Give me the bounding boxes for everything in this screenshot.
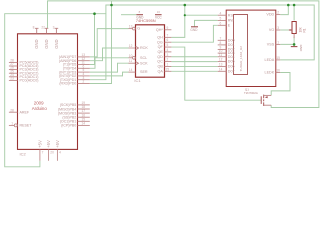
svg-text:4: 4 bbox=[220, 11, 222, 15]
svg-text:RESET: RESET bbox=[20, 124, 33, 128]
junction dot VSS/pot bottom GND bbox=[293, 43, 296, 46]
wire IC1 QA to LCD D7 bbox=[171, 70, 217, 72]
LCD left pins RS R/W E bbox=[218, 15, 227, 25]
junction dot on +5V rail at VDD branch bbox=[287, 4, 290, 7]
IC2 pin number labels bbox=[10, 25, 85, 154]
svg-text:4: 4 bbox=[59, 151, 61, 155]
potentiometer R1 body bbox=[292, 22, 296, 34]
svg-text:23: 23 bbox=[10, 77, 14, 81]
svg-text:LEDK: LEDK bbox=[265, 71, 275, 75]
wire Arduino PD3 to IC1 SCK bbox=[90, 63, 129, 72]
wire stub to GND bar above IC1 bbox=[121, 14, 136, 16]
IC1 output pins QH* QH QG QF QE QD QC QB QA bbox=[165, 30, 172, 72]
svg-text:QC: QC bbox=[157, 60, 163, 64]
IC2 left side pins PC5..PC0 bbox=[9, 62, 18, 80]
svg-text:TUXGR_16X2_R2: TUXGR_16X2_R2 bbox=[239, 46, 243, 72]
wire +5V net: Arduino bottom pin loop left side, top rail to LCD VDD, pot, LEDA bbox=[5, 5, 315, 167]
IC1 pin RCK (12) with clock wedge bbox=[129, 46, 139, 49]
svg-text:GND: GND bbox=[34, 39, 39, 48]
IC1 pin SER (14) bbox=[129, 71, 136, 73]
svg-text:D07: D07 bbox=[228, 69, 235, 73]
svg-text:+5V: +5V bbox=[55, 140, 60, 148]
LCD right pins VDD VO VSS LEDA LEDK bbox=[276, 15, 281, 73]
svg-text:7: 7 bbox=[220, 36, 222, 40]
svg-text:LEDA: LEDA bbox=[265, 58, 275, 62]
svg-text:(RXD)PD0: (RXD)PD0 bbox=[59, 82, 76, 86]
svg-text:5: 5 bbox=[220, 17, 222, 21]
svg-text:12: 12 bbox=[129, 44, 133, 48]
svg-text:QB: QB bbox=[157, 65, 163, 69]
svg-text:8: 8 bbox=[33, 25, 35, 29]
svg-text:SCL: SCL bbox=[140, 56, 147, 60]
IC2 top GND pin 1 bbox=[35, 28, 39, 34]
LCD display body bbox=[226, 10, 276, 86]
svg-text:3: 3 bbox=[167, 53, 169, 57]
wire IC1 QF to transistor gate bbox=[171, 47, 261, 100]
svg-text:D00: D00 bbox=[228, 38, 235, 42]
svg-text:QH*: QH* bbox=[156, 28, 164, 32]
IC2 right side pins PB5..PB0 bbox=[78, 105, 90, 126]
svg-text:GND: GND bbox=[190, 28, 198, 32]
potentiometer R1 wiper arrow bbox=[289, 29, 292, 31]
svg-text:(ICP)PB0: (ICP)PB0 bbox=[61, 124, 76, 128]
wire G of IC1 to Arduino PD7 bbox=[90, 29, 129, 57]
svg-text:VCC: VCC bbox=[155, 15, 162, 19]
svg-text:14: 14 bbox=[219, 67, 223, 71]
wire Arduino PD2 to IC1 SER bbox=[90, 72, 129, 76]
svg-text:D06: D06 bbox=[228, 65, 235, 69]
svg-text:PC0(ADC0): PC0(ADC0) bbox=[20, 79, 39, 83]
svg-text:RS: RS bbox=[228, 13, 234, 17]
svg-text:4: 4 bbox=[167, 48, 169, 52]
transistor Q1 gate bar bbox=[260, 96, 262, 104]
LCD inner display window bbox=[234, 15, 248, 75]
wire IC1 QG to LCD E bbox=[171, 25, 217, 42]
svg-text:QE: QE bbox=[157, 50, 163, 54]
svg-text:QD: QD bbox=[157, 55, 163, 59]
svg-text:T2N7002A: T2N7002A bbox=[244, 91, 258, 95]
svg-text:15: 15 bbox=[166, 67, 170, 71]
svg-text:IC2: IC2 bbox=[20, 151, 27, 156]
svg-text:D05: D05 bbox=[228, 60, 235, 64]
svg-text:11: 11 bbox=[129, 59, 133, 63]
wire GND symbol to LCD R/W bbox=[195, 20, 218, 26]
IC1 pin name labels bbox=[137, 27, 163, 74]
IC2 top GND pin 2 bbox=[45, 28, 49, 34]
svg-text:8: 8 bbox=[220, 41, 222, 45]
wire GND net: Arduino GND top pin along top edge, right side down to transistor source bbox=[48, 1, 319, 108]
junction dot on +5V left feed at PD4 branch bbox=[93, 12, 96, 15]
junction dot top rail at x184.8 bbox=[184, 4, 187, 7]
svg-text:GND: GND bbox=[299, 45, 303, 53]
svg-text:RCK: RCK bbox=[140, 46, 148, 50]
wire Arduino PD4 to IC1 SCL bbox=[90, 58, 129, 69]
svg-text:14: 14 bbox=[129, 68, 133, 72]
svg-text:GND: GND bbox=[44, 39, 49, 48]
svg-text:G: G bbox=[137, 27, 140, 31]
wire PD5 to +5V rail vertical bbox=[90, 14, 95, 65]
IC2 pin name labels bbox=[20, 39, 77, 147]
LCD left pins D0..D7 bbox=[218, 40, 227, 71]
wire IC1 QC to LCD D5 bbox=[171, 61, 217, 63]
svg-text:22: 22 bbox=[41, 25, 45, 29]
svg-text:2: 2 bbox=[277, 11, 279, 15]
svg-text:7: 7 bbox=[42, 151, 44, 155]
svg-text:15: 15 bbox=[276, 56, 280, 60]
svg-text:2009: 2009 bbox=[34, 100, 44, 105]
svg-text:3: 3 bbox=[277, 26, 279, 30]
svg-text:3: 3 bbox=[53, 25, 55, 29]
svg-text:GND: GND bbox=[136, 15, 144, 19]
IC2 RESET pin with inversion circle bbox=[9, 124, 14, 126]
svg-text:VO: VO bbox=[269, 28, 274, 32]
junction dot on +5V rail at pot branch bbox=[293, 4, 296, 7]
svg-text:9: 9 bbox=[167, 26, 169, 30]
svg-text:AREF: AREF bbox=[20, 110, 30, 114]
svg-text:1: 1 bbox=[167, 63, 169, 67]
wire branch +5V to pot R1 top bbox=[293, 5, 295, 21]
wire IC1 QB to LCD D6 bbox=[171, 65, 217, 67]
LCD pin name labels bbox=[228, 13, 275, 75]
svg-text:6: 6 bbox=[220, 21, 222, 25]
svg-text:2: 2 bbox=[83, 80, 85, 84]
svg-text:7: 7 bbox=[167, 33, 169, 37]
wire Arduino PD6 to IC1 RCK bbox=[90, 48, 129, 61]
svg-text:1: 1 bbox=[277, 41, 279, 45]
svg-text:16: 16 bbox=[276, 69, 280, 73]
svg-text:VDD: VDD bbox=[266, 13, 274, 17]
svg-text:IC1: IC1 bbox=[134, 78, 141, 83]
transistor Q1 drain lead bbox=[264, 94, 272, 96]
wire IC1 QD to LCD D4 bbox=[171, 56, 217, 58]
svg-text:13: 13 bbox=[129, 25, 133, 29]
IC2 AREF pin bbox=[9, 111, 18, 113]
svg-text:13: 13 bbox=[219, 63, 223, 67]
shift register IC1 body (74HC595N) bbox=[136, 25, 165, 77]
svg-text:QA: QA bbox=[157, 69, 163, 73]
transistor Q1 source lead bbox=[264, 104, 272, 106]
svg-text:QH: QH bbox=[157, 36, 163, 40]
wire vertical from top GND wire down to Arduino PD0 bbox=[90, 1, 112, 84]
svg-text:10: 10 bbox=[129, 54, 133, 58]
svg-text:+5V: +5V bbox=[46, 140, 51, 148]
wire branch +5V to LCD VDD bbox=[280, 5, 288, 15]
svg-text:SCK: SCK bbox=[140, 61, 148, 65]
svg-text:D04: D04 bbox=[228, 55, 235, 59]
wire vertical from +5V corner down to Arduino PD1 bbox=[90, 14, 106, 80]
IC1 pin SCL (10) with circle bbox=[129, 57, 133, 59]
transistor Q1 body diode arrow bbox=[265, 96, 268, 98]
svg-text:VSS: VSS bbox=[267, 43, 275, 47]
svg-text:Arduino: Arduino bbox=[32, 106, 48, 111]
microcontroller IC2 body (2009 Arduino) bbox=[18, 34, 78, 150]
IC2 top GND pin 3 bbox=[55, 28, 59, 34]
svg-text:6: 6 bbox=[167, 38, 169, 42]
GND supply symbol above IC1 pin 8 bbox=[136, 14, 143, 16]
svg-text:16: 16 bbox=[157, 10, 161, 14]
svg-text:1: 1 bbox=[11, 122, 13, 126]
GND supply symbol at LCD R/W wire bbox=[191, 26, 198, 28]
pot bottom red stub bbox=[293, 34, 295, 39]
svg-text:28: 28 bbox=[10, 108, 14, 112]
wire IC1 QH to LCD RS and up to top rail bbox=[171, 5, 184, 37]
IC2 value text 2009 Arduino bbox=[32, 100, 48, 111]
wire pot R1 bottom to GND bbox=[293, 37, 295, 47]
svg-text:R1: R1 bbox=[302, 28, 306, 32]
IC2 right side pins PD7..PD0 bbox=[78, 57, 90, 84]
svg-text:11: 11 bbox=[219, 53, 223, 57]
IC1 pin SCK (11) with clock wedge bbox=[129, 62, 139, 65]
svg-text:RW: RW bbox=[228, 19, 235, 23]
svg-text:SER: SER bbox=[140, 70, 148, 74]
transistor Q1 channel segments bbox=[263, 95, 265, 106]
GND supply symbol below pot R1 bbox=[291, 46, 298, 48]
LCD pin numbers bbox=[219, 11, 280, 73]
svg-text:20: 20 bbox=[50, 151, 54, 155]
svg-text:5: 5 bbox=[167, 43, 169, 47]
svg-text:2: 2 bbox=[167, 58, 169, 62]
svg-text:QG: QG bbox=[157, 40, 163, 44]
wire LCD VSS to GND below pot bbox=[280, 44, 294, 46]
junction dot on +5V rail at RCK branch bbox=[110, 4, 113, 7]
svg-text:+5V: +5V bbox=[37, 140, 42, 148]
IC1 pin numbers bbox=[129, 25, 169, 73]
svg-text:D01: D01 bbox=[228, 43, 235, 47]
VCC supply symbol above IC1 pin 16 bbox=[155, 14, 162, 16]
wire LCD VO to pot wiper bbox=[280, 29, 289, 31]
IC1 pin G (13) with circle bbox=[129, 28, 133, 30]
wire LCD LEDK to transistor drain bbox=[271, 73, 290, 96]
junction dot RS branch bbox=[184, 14, 186, 16]
IC2 bottom pins +5V bbox=[40, 149, 58, 160]
svg-text:14: 14 bbox=[82, 122, 86, 126]
svg-text:12: 12 bbox=[219, 58, 223, 62]
svg-text:GND: GND bbox=[54, 39, 59, 48]
svg-text:QF: QF bbox=[158, 45, 164, 49]
